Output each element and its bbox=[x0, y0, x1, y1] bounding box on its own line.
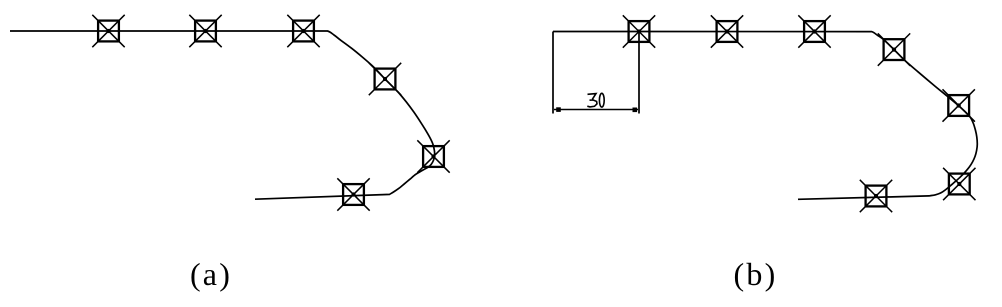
control point A6 bbox=[337, 178, 369, 210]
control point B3 bbox=[798, 15, 830, 47]
figure (b) right extension line bbox=[638, 32, 640, 114]
control point B6 bbox=[943, 168, 975, 200]
control point A5 bbox=[417, 140, 449, 172]
control point A3 bbox=[287, 15, 319, 47]
control point B1 bbox=[623, 15, 655, 47]
control point A1 bbox=[92, 15, 124, 47]
control point B7 bbox=[860, 180, 892, 212]
control point A4 bbox=[369, 63, 401, 95]
dimension text 30 bbox=[587, 93, 604, 107]
figure (a) polyline path bbox=[10, 31, 435, 199]
label (b) bbox=[734, 256, 778, 292]
figure (b) polyline path bbox=[553, 32, 977, 200]
control point B5 bbox=[943, 89, 975, 121]
control point B4 bbox=[878, 33, 910, 65]
dimension line 30 bbox=[554, 107, 638, 112]
control point B2 bbox=[711, 15, 743, 47]
figure (b) left extension line bbox=[552, 32, 554, 114]
svg-text:(b): (b) bbox=[734, 256, 778, 292]
svg-text:(a): (a) bbox=[190, 256, 232, 292]
control point A2 bbox=[189, 15, 221, 47]
label (a) bbox=[190, 256, 232, 292]
